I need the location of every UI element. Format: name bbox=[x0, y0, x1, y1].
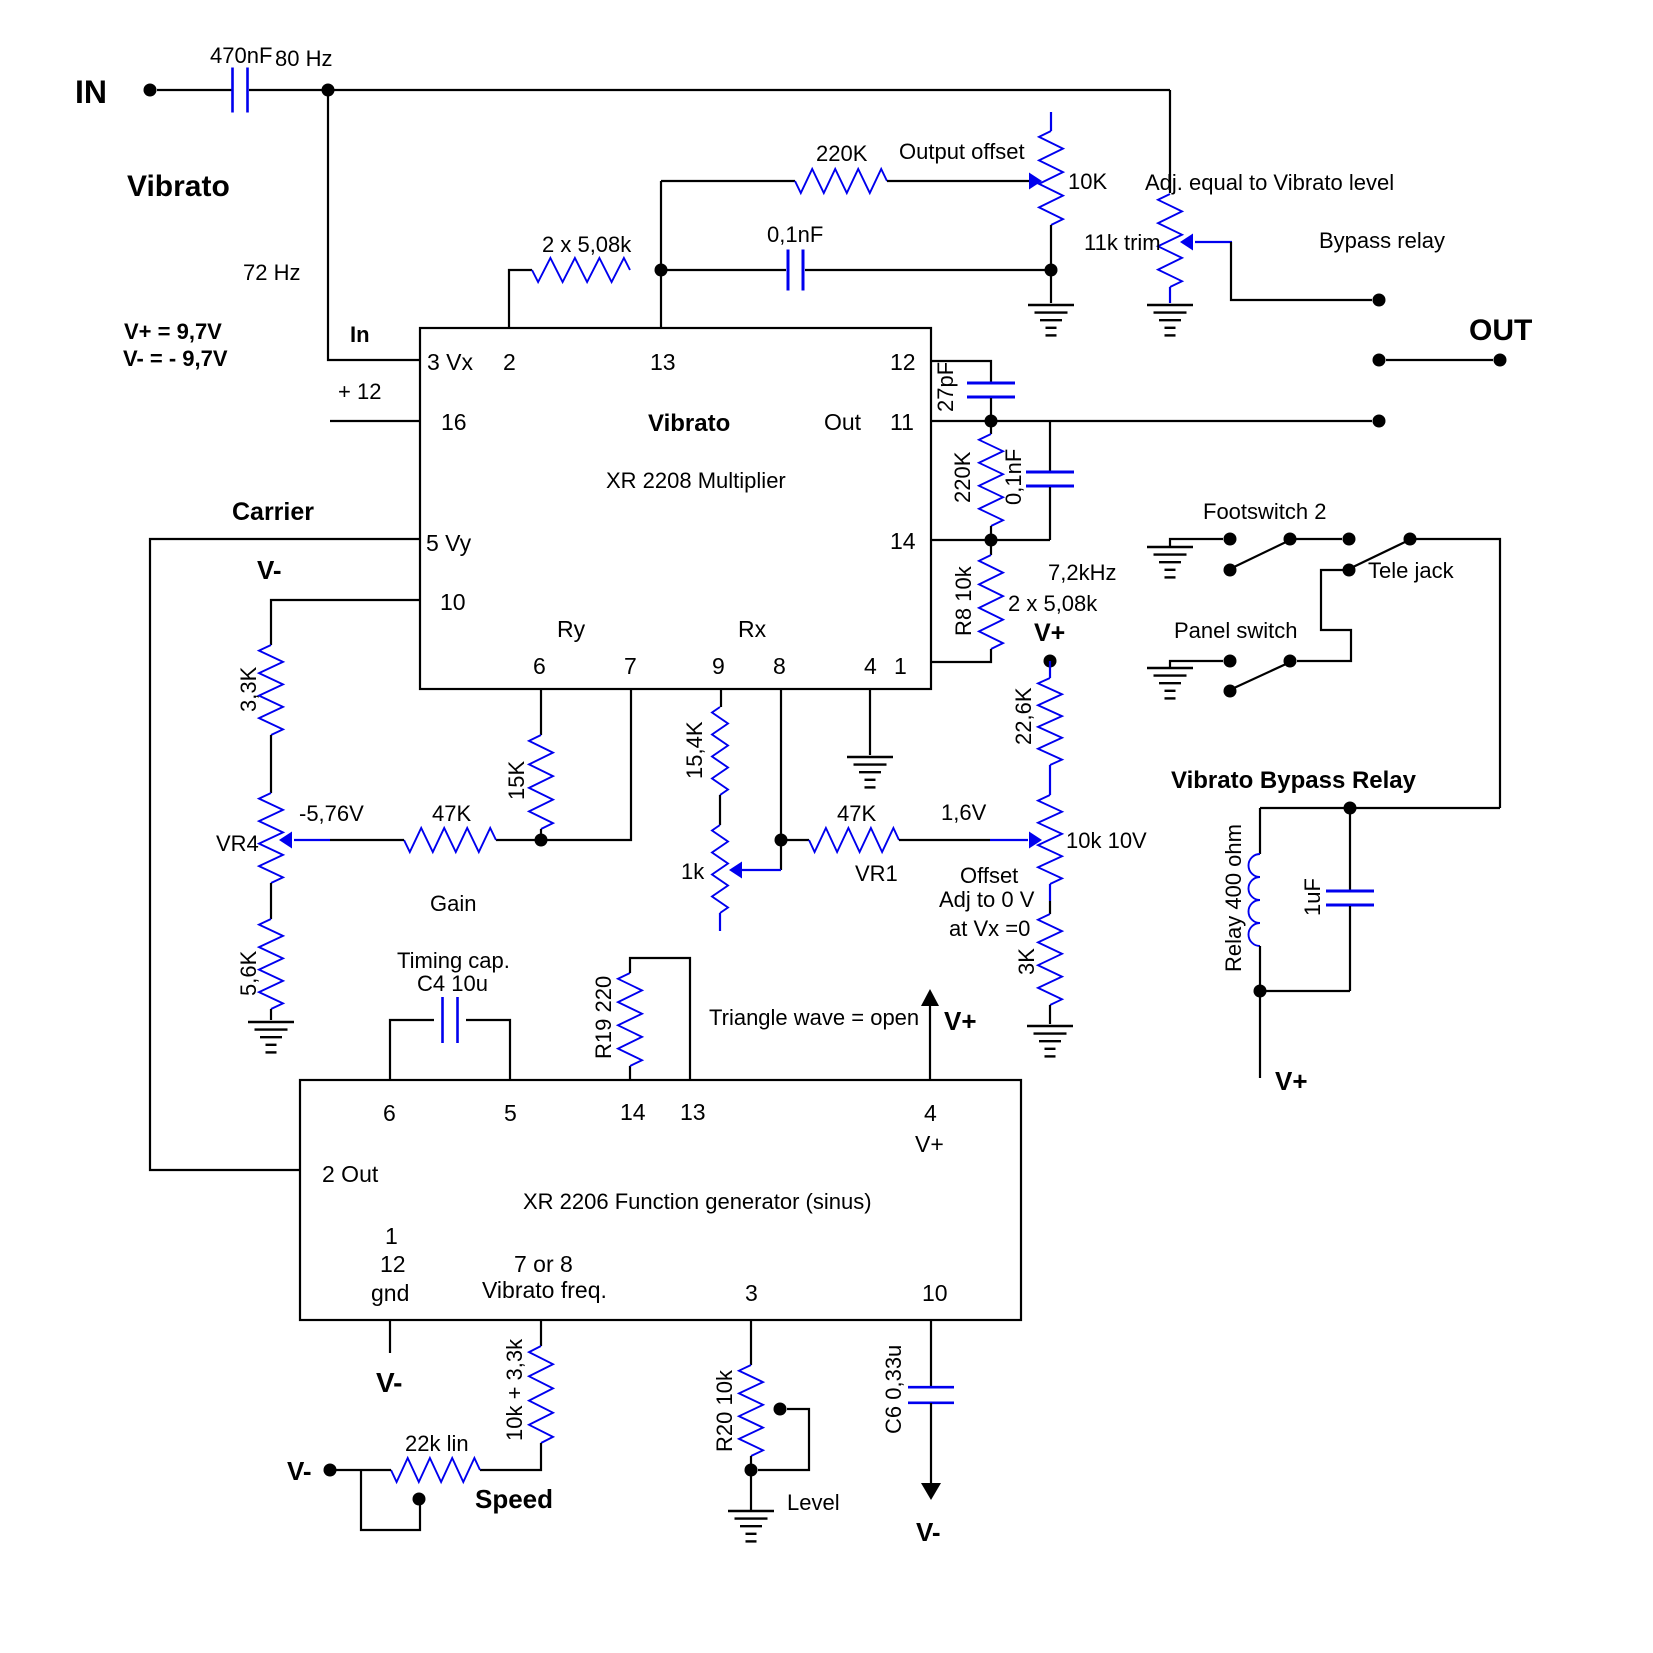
label V- pin12 bbox=[376, 1367, 402, 1398]
wire 15K to node bbox=[540, 829, 542, 840]
label -5,76V bbox=[299, 801, 364, 826]
wire 0,1nF right bbox=[805, 269, 1051, 271]
svg-text:C4 10u: C4 10u bbox=[417, 971, 488, 996]
pin 6 label U2 bbox=[383, 1100, 396, 1126]
svg-text:Relay 400 ohm: Relay 400 ohm bbox=[1221, 824, 1246, 972]
pin 12 label U2 bbox=[380, 1251, 406, 1277]
wire 1uF top lead bbox=[1349, 808, 1351, 890]
wire pin4 down bbox=[869, 690, 871, 755]
svg-text:10: 10 bbox=[922, 1280, 948, 1306]
pin 1 label bbox=[894, 653, 907, 679]
node V- terminal 22k bbox=[324, 1464, 337, 1477]
svg-text:1uF: 1uF bbox=[1300, 878, 1325, 916]
power V+ arrow bbox=[921, 989, 939, 1081]
svg-text:1k: 1k bbox=[681, 859, 705, 884]
label Timing cap. bbox=[397, 948, 510, 973]
wire 10K pot to ground bbox=[1050, 225, 1052, 303]
svg-text:10K: 10K bbox=[1068, 169, 1107, 194]
inductor relay coil 400 ohm bbox=[1221, 824, 1260, 972]
label V+ relay bbox=[1275, 1066, 1308, 1096]
node V+ terminal bbox=[1044, 655, 1057, 668]
capacitor C1 470nF bbox=[210, 43, 272, 113]
wire relay to V+ bbox=[1259, 991, 1261, 1078]
node footswitch c bbox=[1343, 533, 1356, 546]
pin 4 label bbox=[864, 653, 877, 679]
wire V+ to 22,6K bbox=[1049, 661, 1051, 678]
label 7 or 8 bbox=[514, 1251, 573, 1277]
label 80 Hz bbox=[275, 46, 332, 71]
pin 13 label bbox=[650, 349, 676, 375]
label Tele jack bbox=[1368, 558, 1455, 583]
svg-text:Vibrato: Vibrato bbox=[127, 170, 230, 203]
pin 12 label bbox=[890, 349, 916, 375]
wire rail down to 11k trim bbox=[1169, 90, 1171, 193]
switch lever footswitch right bbox=[1353, 542, 1405, 567]
svg-text:XR 2206 Function generator (si: XR 2206 Function generator (sinus) bbox=[523, 1189, 872, 1214]
svg-text:16: 16 bbox=[441, 409, 467, 435]
pin 5 label U2 bbox=[504, 1100, 517, 1126]
resistor R19 220 bbox=[591, 973, 642, 1066]
svg-text:IN: IN bbox=[75, 74, 107, 110]
wire relay top bbox=[1260, 807, 1500, 809]
wire R8 to pin1 bbox=[931, 649, 991, 662]
capacitor 0,1nF top bbox=[767, 222, 823, 291]
wire 220K to pot bbox=[887, 180, 1030, 182]
svg-text:3: 3 bbox=[745, 1280, 758, 1306]
label 1,6V bbox=[941, 800, 987, 825]
wire footswitch b-c bbox=[1296, 538, 1342, 540]
wiper arrow 10k pot bbox=[990, 832, 1042, 849]
svg-text:2 x 5,08k: 2 x 5,08k bbox=[542, 232, 632, 257]
wire pin6 down bbox=[540, 690, 542, 735]
wire 11k to ground bbox=[1169, 287, 1171, 303]
svg-text:3K: 3K bbox=[1014, 948, 1039, 975]
trimmer 11k bbox=[1084, 194, 1182, 287]
svg-text:47K: 47K bbox=[837, 801, 876, 826]
svg-text:VR4: VR4 bbox=[216, 831, 259, 856]
pin 14 label U2 bbox=[620, 1099, 646, 1125]
label V- 22k bbox=[287, 1456, 312, 1486]
svg-text:Triangle wave = open: Triangle wave = open bbox=[709, 1005, 919, 1030]
resistor R 47K gain bbox=[404, 801, 496, 852]
label + 12 bbox=[338, 379, 381, 404]
wire 5,6K to ground bbox=[270, 1009, 272, 1020]
capacitor 0,1nF right bbox=[1001, 449, 1074, 505]
svg-text:12: 12 bbox=[890, 349, 916, 375]
label Panel switch bbox=[1174, 618, 1298, 643]
node panel a2 bbox=[1224, 685, 1237, 698]
ground under 3K bbox=[1027, 1026, 1073, 1056]
wire relay common to OUT bbox=[1386, 359, 1493, 361]
wire 27pF to out net bbox=[990, 398, 992, 421]
label Offset bbox=[960, 863, 1018, 888]
pin 16 label bbox=[441, 409, 467, 435]
svg-text:4: 4 bbox=[924, 1100, 937, 1126]
wire 0,1nF left bbox=[661, 269, 786, 271]
svg-text:3 Vx: 3 Vx bbox=[427, 349, 474, 375]
wiper arrow VR4 bbox=[279, 832, 330, 849]
node relay top junction bbox=[1344, 802, 1357, 815]
svg-text:1: 1 bbox=[894, 653, 907, 679]
pin 9 label bbox=[712, 653, 725, 679]
potentiometer 10k 10V offset bbox=[1038, 795, 1147, 884]
label V- carrier bbox=[257, 555, 282, 585]
potentiometer 1k bbox=[681, 825, 728, 913]
svg-text:220K: 220K bbox=[816, 141, 868, 166]
pin 14 label bbox=[890, 528, 916, 554]
label Vibrato freq. bbox=[482, 1277, 607, 1303]
label V+ pin4 U2 bbox=[915, 1131, 944, 1157]
svg-text:Offset: Offset bbox=[960, 863, 1018, 888]
wire panel ground lead bbox=[1170, 661, 1223, 668]
node relay contact top bbox=[1373, 294, 1386, 307]
pin 5 Vy label bbox=[426, 530, 472, 556]
svg-text:XR 2208 Multiplier: XR 2208 Multiplier bbox=[606, 468, 786, 493]
svg-text:+ 12: + 12 bbox=[338, 379, 381, 404]
svg-text:3,3K: 3,3K bbox=[236, 666, 261, 712]
svg-text:7 or 8: 7 or 8 bbox=[514, 1251, 573, 1277]
wire pin14 bbox=[931, 539, 1050, 541]
wiper arrow 1k pot bbox=[729, 862, 781, 879]
wire IN to C1 bbox=[157, 89, 232, 91]
svg-text:Vibrato: Vibrato bbox=[648, 410, 730, 437]
node 22k wiper bbox=[413, 1493, 426, 1506]
node panel b bbox=[1284, 655, 1297, 668]
wire pin11 out bbox=[931, 420, 1372, 422]
svg-text:10k + 3,3k: 10k + 3,3k bbox=[502, 1338, 527, 1441]
ground under pin 4 bbox=[847, 757, 893, 787]
wire pin6 U2 up bbox=[390, 1020, 434, 1080]
resistor R 47K VR1 bbox=[809, 801, 899, 852]
svg-text:12: 12 bbox=[380, 1251, 406, 1277]
svg-text:15,4K: 15,4K bbox=[682, 721, 707, 779]
wire node to 47K bbox=[781, 839, 809, 841]
pin 13 label U2 bbox=[680, 1099, 706, 1125]
node relay contact bottom bbox=[1373, 415, 1386, 428]
svg-text:V-: V- bbox=[257, 555, 282, 585]
svg-text:Rx: Rx bbox=[738, 616, 767, 642]
svg-text:470nF: 470nF bbox=[210, 43, 272, 68]
wire pin7 down to node bbox=[496, 690, 631, 840]
pin 7 label bbox=[624, 653, 637, 679]
svg-text:V+: V+ bbox=[1034, 619, 1065, 647]
svg-text:0,1nF: 0,1nF bbox=[767, 222, 823, 247]
pin Rx label bbox=[738, 616, 767, 642]
svg-text:6: 6 bbox=[533, 653, 546, 679]
label Carrier bbox=[232, 498, 314, 526]
wire 22,6K to 10k pot bbox=[1049, 765, 1051, 795]
node junction 0,1nF right bbox=[1045, 264, 1058, 277]
node relay common bbox=[1373, 354, 1386, 367]
label Vibrato title bbox=[127, 170, 230, 203]
wire C6 to V- arrow bbox=[930, 1403, 932, 1486]
pin 8 label bbox=[773, 653, 786, 679]
label V+ = 9,7V bbox=[124, 319, 222, 344]
label gnd U2 bbox=[371, 1280, 409, 1306]
node junction pin14 bbox=[985, 534, 998, 547]
label Triangle wave = open bbox=[709, 1005, 919, 1030]
label V+ U2 bbox=[944, 1006, 977, 1036]
label XR 2208 Multiplier bbox=[606, 468, 786, 493]
pin 2 Out label U2 bbox=[322, 1161, 379, 1187]
svg-text:Panel switch: Panel switch bbox=[1174, 618, 1298, 643]
pin 10 label bbox=[440, 589, 466, 615]
svg-text:5,6K: 5,6K bbox=[236, 950, 261, 996]
wire pin2 up bbox=[509, 270, 532, 328]
wire pin10 U2 down bbox=[930, 1320, 932, 1386]
wire relay coil bottom lead bbox=[1259, 946, 1261, 991]
wire 0,1nF to pin14 bbox=[1049, 487, 1051, 540]
svg-text:V-: V- bbox=[376, 1367, 402, 1398]
wire 15,4K to 1k bbox=[719, 795, 721, 825]
op-amp U1 XR2208 multiplier box bbox=[420, 328, 931, 689]
svg-text:22k lin: 22k lin bbox=[405, 1431, 469, 1456]
wire VR4 to 5,6K bbox=[270, 883, 272, 919]
svg-text:220K: 220K bbox=[950, 451, 975, 503]
wire pin12 to 27pF bbox=[931, 361, 991, 382]
label Adj. equal to Vibrato level bbox=[1145, 170, 1394, 195]
pin 2 label bbox=[503, 349, 516, 375]
wire pin13 vertical bbox=[660, 181, 662, 328]
wire 1k open tail bbox=[719, 913, 721, 931]
switch lever panel bbox=[1234, 664, 1286, 688]
resistor R 15K bbox=[504, 735, 553, 829]
label Gain bbox=[430, 891, 476, 916]
node footswitch a2 bbox=[1224, 564, 1237, 577]
svg-text:1: 1 bbox=[385, 1223, 398, 1249]
svg-text:9: 9 bbox=[712, 653, 725, 679]
resistor R 15,4K bbox=[682, 707, 728, 795]
ground under 10K pot bbox=[1028, 305, 1074, 335]
svg-text:V+: V+ bbox=[944, 1006, 977, 1036]
pin 10 label U2 bbox=[922, 1280, 948, 1306]
wire footswitch d to relay bbox=[1410, 539, 1500, 808]
node junction 5,08k/0,1nF bbox=[655, 264, 668, 277]
svg-text:V+: V+ bbox=[915, 1131, 944, 1157]
capacitor C4 10u bbox=[443, 997, 458, 1043]
svg-text:10: 10 bbox=[440, 589, 466, 615]
resistor R20 10k bbox=[712, 1365, 763, 1456]
svg-text:R19 220: R19 220 bbox=[591, 976, 616, 1059]
svg-text:V-: V- bbox=[916, 1517, 941, 1547]
svg-text:OUT: OUT bbox=[1469, 314, 1532, 347]
op-amp U2 XR2206 function generator box bbox=[300, 1080, 1021, 1320]
resistor R 22,6K bbox=[1011, 678, 1062, 765]
svg-text:15K: 15K bbox=[504, 761, 529, 800]
wire pin7/8 down bbox=[540, 1320, 542, 1346]
svg-text:11: 11 bbox=[890, 409, 914, 435]
svg-text:V-: V- bbox=[287, 1456, 312, 1486]
wire 1uF bottom lead bbox=[1349, 906, 1351, 991]
wire pin14 U2 up bbox=[629, 1066, 631, 1081]
wire R19 bracket to pin13 bbox=[630, 958, 690, 1081]
svg-text:14: 14 bbox=[620, 1099, 646, 1125]
resistor R 3K bbox=[1014, 914, 1062, 1005]
svg-text:V- = - 9,7V: V- = - 9,7V bbox=[123, 346, 228, 371]
svg-text:In: In bbox=[350, 322, 370, 347]
wire 10k pot to 3K bbox=[1049, 884, 1051, 914]
svg-text:C6 0,33u: C6 0,33u bbox=[881, 1345, 906, 1434]
label VR1 bbox=[855, 861, 898, 886]
svg-text:72 Hz: 72 Hz bbox=[243, 260, 300, 285]
svg-text:Gain: Gain bbox=[430, 891, 476, 916]
svg-text:0,1nF: 0,1nF bbox=[1001, 449, 1026, 505]
label OUT bbox=[1469, 314, 1532, 347]
wire pin5 U2 up bbox=[466, 1020, 510, 1080]
svg-text:7: 7 bbox=[624, 653, 637, 679]
node input junction bbox=[322, 84, 335, 97]
wire 3,3K to VR4 bbox=[270, 735, 272, 793]
svg-text:Carrier: Carrier bbox=[232, 498, 314, 526]
wire wiper to relay contact bbox=[1231, 242, 1372, 300]
svg-text:Speed: Speed bbox=[475, 1484, 553, 1514]
node Ry junction bbox=[535, 834, 548, 847]
svg-text:2 Out: 2 Out bbox=[322, 1161, 379, 1187]
svg-text:R20 10k: R20 10k bbox=[712, 1369, 737, 1452]
label 7,2kHz bbox=[1048, 560, 1116, 585]
pin Ry label bbox=[557, 616, 586, 642]
wire pin9 down bbox=[720, 690, 722, 707]
wire footswitch ground lead bbox=[1170, 539, 1223, 547]
node Rx junction bbox=[775, 834, 788, 847]
wire junction down to Vx bbox=[328, 90, 420, 360]
wire 47K to 10k pot wiper bbox=[899, 839, 990, 841]
wire pin10 left bbox=[271, 600, 420, 645]
svg-text:5: 5 bbox=[504, 1100, 517, 1126]
wire relay bottom bbox=[1260, 990, 1350, 992]
svg-text:Adj to 0 V: Adj to 0 V bbox=[939, 887, 1035, 912]
svg-text:47K: 47K bbox=[432, 801, 471, 826]
label Vibrato Bypass Relay bbox=[1171, 767, 1417, 794]
label Adj to 0 V bbox=[939, 887, 1035, 912]
svg-text:14: 14 bbox=[890, 528, 916, 554]
label Bypass relay bbox=[1319, 228, 1445, 253]
svg-text:VR1: VR1 bbox=[855, 861, 898, 886]
switch lever footswitch left bbox=[1234, 542, 1286, 567]
power V- arrow down bbox=[921, 1483, 941, 1500]
node R20 bottom junction bbox=[745, 1464, 758, 1477]
svg-text:Ry: Ry bbox=[557, 616, 586, 642]
svg-text:27pF: 27pF bbox=[933, 362, 958, 412]
svg-text:at Vx =0: at Vx =0 bbox=[949, 916, 1030, 941]
svg-text:2 x 5,08k: 2 x 5,08k bbox=[1008, 591, 1098, 616]
svg-text:6: 6 bbox=[383, 1100, 396, 1126]
svg-text:V+: V+ bbox=[1275, 1066, 1308, 1096]
svg-text:Vibrato Bypass Relay: Vibrato Bypass Relay bbox=[1171, 767, 1417, 794]
wire pin16 +12 stub bbox=[330, 420, 420, 422]
resistor R8 10k bbox=[951, 555, 1003, 649]
node relay bottom junction bbox=[1254, 985, 1267, 998]
wire 220K vert bottom bbox=[990, 526, 992, 555]
node OUT terminal bbox=[1494, 354, 1507, 367]
label at Vx =0 bbox=[949, 916, 1030, 941]
svg-text:7,2kHz: 7,2kHz bbox=[1048, 560, 1116, 585]
wire 3K to ground bbox=[1049, 1005, 1051, 1024]
wire 22k to V- bbox=[336, 1469, 391, 1471]
node R20 wiper bbox=[774, 1403, 787, 1416]
svg-text:10k 10V: 10k 10V bbox=[1066, 828, 1147, 853]
wire pin8 down bbox=[780, 690, 782, 870]
node panel a bbox=[1224, 655, 1237, 668]
pin 11 Out label bbox=[824, 409, 914, 435]
svg-text:Footswitch 2: Footswitch 2 bbox=[1203, 499, 1327, 524]
svg-text:22,6K: 22,6K bbox=[1011, 687, 1036, 745]
node IN terminal bbox=[75, 74, 157, 110]
svg-text:5 Vy: 5 Vy bbox=[426, 530, 472, 556]
resistor R 220K vertical bbox=[950, 434, 1003, 526]
svg-text:gnd: gnd bbox=[371, 1280, 409, 1306]
label Vibrato chip bbox=[648, 410, 730, 437]
svg-text:Output offset: Output offset bbox=[899, 139, 1025, 164]
svg-text:Vibrato freq.: Vibrato freq. bbox=[482, 1277, 607, 1303]
ground footswitch bbox=[1147, 547, 1193, 577]
wire tele jack weave bbox=[1297, 570, 1351, 661]
ground under 11k trim bbox=[1147, 305, 1193, 335]
pin 1 label U2 bbox=[385, 1223, 398, 1249]
node footswitch a bbox=[1224, 533, 1237, 546]
wire 47K to VR4 wiper bbox=[330, 839, 404, 841]
pin 4 label U2 bbox=[924, 1100, 937, 1126]
svg-text:13: 13 bbox=[650, 349, 676, 375]
resistor R 220K top bbox=[795, 141, 887, 193]
label XR 2206 Function generator bbox=[523, 1189, 872, 1214]
wiper arrow into 10K pot bbox=[1029, 173, 1042, 190]
wire relay coil top lead bbox=[1259, 808, 1261, 854]
wire carrier pin5 Vy bbox=[150, 539, 420, 1170]
ground panel switch bbox=[1147, 668, 1193, 698]
node junction pin11/220K bbox=[985, 415, 998, 428]
capacitor 27pF bbox=[933, 362, 1015, 412]
wire R20 wiper loop bbox=[758, 1409, 809, 1470]
node footswitch b bbox=[1284, 533, 1297, 546]
svg-text:Timing cap.: Timing cap. bbox=[397, 948, 510, 973]
wire pin3 U2 down bbox=[750, 1320, 752, 1365]
label Output offset bbox=[899, 139, 1025, 164]
node footswitch d bbox=[1404, 533, 1417, 546]
wire 22k wiper loop bbox=[361, 1470, 420, 1530]
wire top rail bbox=[249, 89, 1170, 91]
ground under 5,6K bbox=[248, 1022, 294, 1052]
label V+ node bbox=[1034, 619, 1065, 647]
label Level bbox=[787, 1490, 840, 1515]
svg-text:13: 13 bbox=[680, 1099, 706, 1125]
label V- = -9,7V bbox=[123, 346, 228, 371]
svg-text:-5,76V: -5,76V bbox=[299, 801, 364, 826]
svg-text:4: 4 bbox=[864, 653, 877, 679]
label 72 Hz bbox=[243, 260, 300, 285]
wire R20 to ground bbox=[750, 1456, 752, 1510]
resistor R 2x5,08k bbox=[532, 232, 632, 282]
svg-text:V+ = 9,7V: V+ = 9,7V bbox=[124, 319, 222, 344]
ground under R20 bbox=[728, 1511, 774, 1541]
svg-text:2: 2 bbox=[503, 349, 516, 375]
svg-text:Bypass relay: Bypass relay bbox=[1319, 228, 1445, 253]
svg-text:Tele jack: Tele jack bbox=[1368, 558, 1455, 583]
potentiometer VR4 bbox=[216, 793, 283, 883]
potentiometer 22k lin speed bbox=[391, 1431, 480, 1482]
pin 3 Vx label bbox=[427, 349, 474, 375]
resistor R 5,6K bbox=[236, 919, 283, 1009]
svg-text:80 Hz: 80 Hz bbox=[275, 46, 332, 71]
resistor R 3,3K bbox=[236, 645, 283, 735]
wire out to 0,1nF bbox=[1049, 421, 1051, 471]
svg-text:1,6V: 1,6V bbox=[941, 800, 987, 825]
label Speed bbox=[475, 1484, 553, 1514]
svg-text:Out: Out bbox=[824, 409, 862, 435]
svg-text:8: 8 bbox=[773, 653, 786, 679]
label V- C6 bbox=[916, 1517, 941, 1547]
svg-text:Level: Level bbox=[787, 1490, 840, 1515]
